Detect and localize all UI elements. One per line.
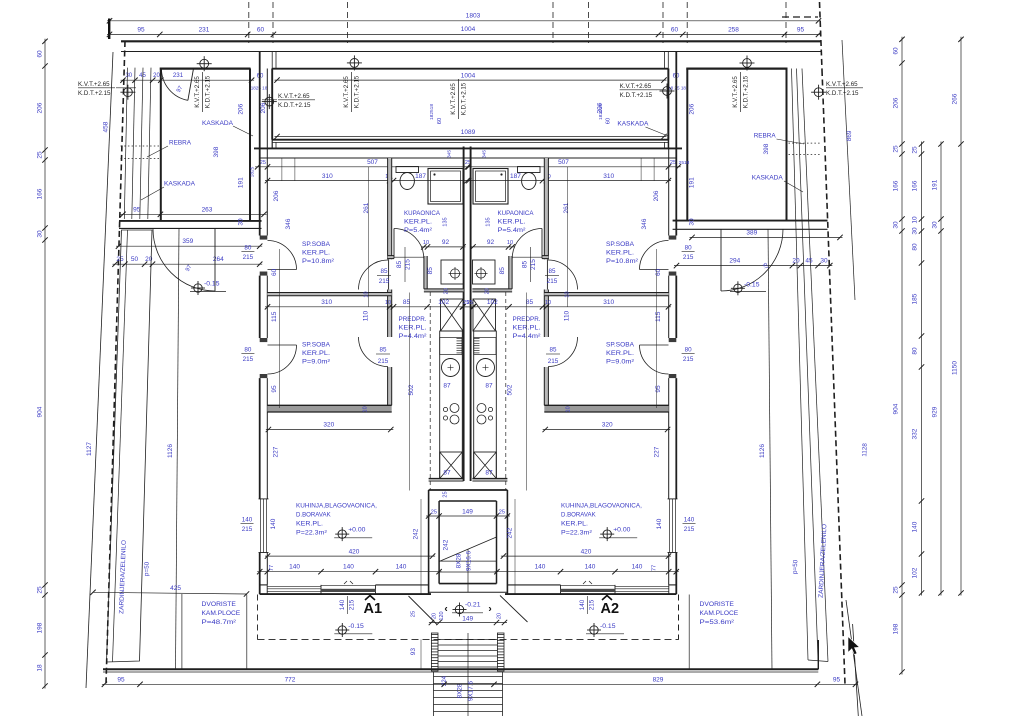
right unit bedroom1 door arc: [548, 260, 578, 290]
svg-text:25: 25: [37, 151, 44, 159]
svg-text:345: 345: [447, 150, 453, 158]
svg-text:SP.SOBA: SP.SOBA: [302, 241, 331, 248]
svg-text:95: 95: [797, 27, 805, 34]
svg-text:140: 140: [396, 564, 407, 571]
svg-text:266: 266: [952, 93, 959, 104]
left wing bottom wall: [119, 220, 262, 222]
svg-text:166: 166: [37, 188, 44, 199]
svg-text:REBRA: REBRA: [169, 140, 192, 147]
svg-text:P=10.8m²: P=10.8m²: [302, 258, 335, 265]
svg-text:20: 20: [497, 613, 503, 619]
svg-text:KASKADA: KASKADA: [202, 120, 234, 127]
svg-text:215: 215: [683, 356, 694, 363]
svg-text:332: 332: [912, 428, 919, 439]
svg-text:K.V.T.+2.65: K.V.T.+2.65: [278, 93, 310, 100]
svg-text:231: 231: [173, 72, 184, 79]
svg-text:140: 140: [242, 517, 253, 524]
left unit +0.00 marker: [338, 530, 346, 538]
svg-text:30: 30: [37, 230, 44, 238]
left unit south wall corner verticals: [266, 585, 268, 594]
svg-text:320: 320: [323, 422, 334, 429]
bottom wall step at right planter: [817, 640, 819, 669]
right unit south wall outer line: [505, 593, 676, 595]
svg-text:215: 215: [379, 278, 390, 285]
svg-text:10: 10: [912, 216, 919, 224]
svg-text:45: 45: [805, 258, 813, 265]
left unit side window 140/215: [260, 499, 262, 553]
stair shaft top wall lines: [429, 489, 508, 491]
right unit witness lines near north wall: [653, 158, 655, 181]
left unit entry door tick marks: [344, 581, 347, 584]
left yard paving line: [181, 594, 183, 669]
svg-text:507: 507: [367, 159, 378, 166]
svg-text:346: 346: [641, 218, 648, 229]
right unit bedroom divider wall: [544, 293, 668, 296]
right unit south wall inner line: [669, 584, 677, 586]
svg-text:166: 166: [912, 180, 919, 191]
svg-text:140: 140: [684, 517, 695, 524]
svg-text:310: 310: [322, 173, 333, 180]
svg-text:A2: A2: [601, 601, 620, 617]
svg-text:206: 206: [893, 97, 900, 108]
svg-text:10: 10: [507, 240, 513, 246]
left unit bedroom1 door arc: [359, 260, 389, 290]
svg-text:77: 77: [652, 565, 658, 571]
left unit side door 1 leaf+arc (80/215): [268, 241, 297, 270]
svg-text:p=50: p=50: [792, 559, 800, 574]
svg-text:242: 242: [413, 528, 420, 539]
svg-text:-0.15: -0.15: [600, 623, 616, 630]
right unit dishwasher hatch: [474, 338, 496, 355]
svg-text:215: 215: [243, 254, 254, 261]
right property boundary (dashed): [820, 2, 823, 70]
svg-text:206: 206: [688, 103, 695, 114]
svg-text:261: 261: [363, 202, 370, 213]
svg-text:P=22.3m²: P=22.3m²: [561, 530, 593, 537]
svg-text:215: 215: [242, 526, 253, 533]
right unit dim chain 310/10/85/102/25: [460, 306, 671, 308]
svg-text:502: 502: [408, 384, 415, 395]
svg-text:215: 215: [405, 259, 412, 270]
svg-text:149: 149: [462, 508, 473, 515]
svg-text:140: 140: [579, 599, 586, 610]
svg-text:198: 198: [893, 623, 900, 634]
svg-text:263: 263: [202, 206, 213, 213]
dashed axis lines above building: [248, 2, 250, 43]
left yard paving line 2: [246, 595, 248, 670]
svg-text:227: 227: [273, 446, 280, 457]
svg-text:30: 30: [238, 218, 245, 226]
svg-text:206: 206: [238, 103, 245, 114]
right yard vertical dim 1126: [768, 229, 772, 670]
svg-text:SP.SOBA: SP.SOBA: [606, 342, 635, 349]
svg-text:K.V.T.+2.65: K.V.T.+2.65: [343, 76, 350, 108]
svg-text:215: 215: [589, 599, 596, 610]
svg-text:87: 87: [443, 383, 451, 390]
svg-text:310: 310: [321, 299, 332, 306]
svg-text:227: 227: [654, 446, 661, 457]
right unit side door 2 leaf+arc (80/215): [640, 345, 669, 374]
svg-text:187: 187: [415, 173, 426, 180]
svg-text:140: 140: [656, 518, 663, 529]
right unit porch dashed outline: [678, 595, 680, 640]
svg-text:182518: 182518: [429, 104, 435, 120]
svg-text:310: 310: [603, 173, 614, 180]
svg-text:60: 60: [671, 27, 679, 34]
left unit witness lines near north wall: [281, 158, 283, 181]
right unit exterior side wall outer line: [675, 52, 677, 236]
svg-text:-0.15: -0.15: [744, 282, 760, 289]
svg-text:85: 85: [427, 267, 434, 275]
svg-text:P=10.8m²: P=10.8m²: [606, 258, 639, 265]
right unit bathroom dim 10/92: [471, 246, 515, 248]
left unit porch dashed outline: [257, 595, 259, 640]
right unit dim 420 south: [501, 555, 671, 557]
right wing bottom wall: [673, 220, 828, 222]
svg-text:929: 929: [932, 406, 939, 417]
svg-text:110: 110: [564, 310, 571, 321]
svg-text:92: 92: [487, 239, 495, 246]
svg-text:85: 85: [522, 261, 529, 269]
right boundary offset slant 869: [842, 40, 855, 300]
left unit dim 420 south: [265, 555, 435, 557]
svg-text:-0.15: -0.15: [348, 623, 364, 630]
terrace east wall: [667, 69, 669, 140]
svg-text:+0.00: +0.00: [348, 527, 365, 534]
svg-text:135: 135: [443, 217, 449, 226]
svg-text:95: 95: [117, 676, 125, 683]
left wing west wall: [160, 68, 162, 221]
left unit bathroom dim 10/92: [421, 246, 465, 248]
right unit entry door sill (hatched): [561, 589, 616, 592]
svg-text:60: 60: [37, 50, 44, 58]
svg-text:140: 140: [912, 521, 919, 532]
left unit exterior side wall outer line: [259, 52, 261, 236]
left property boundary (dashed): [106, 41, 125, 684]
svg-text:K.V.T.+2.65: K.V.T.+2.65: [732, 76, 739, 108]
right yard paving line: [688, 595, 690, 670]
stair dims 25/149/25: [426, 515, 510, 517]
terrace niche stubs: [271, 140, 273, 149]
svg-text:KUHINJA,BLAGOVAONICA,: KUHINJA,BLAGOVAONICA,: [561, 503, 642, 510]
terrace dim 1004: [275, 79, 667, 81]
right unit south window (140): [615, 585, 669, 587]
stair shaft west wall lines: [428, 490, 430, 594]
outdoor stair center line: [467, 633, 469, 716]
left unit kitchen top wall: [267, 405, 391, 412]
svg-text:D.BORAVAK: D.BORAVAK: [561, 512, 596, 519]
svg-text:25: 25: [467, 300, 473, 306]
left cascade step lines: [124, 68, 127, 219]
left wing top wall: [160, 67, 251, 69]
svg-text:80: 80: [912, 347, 919, 355]
svg-text:25: 25: [260, 160, 266, 166]
svg-text:420: 420: [349, 548, 360, 555]
svg-text:P=4.4m²: P=4.4m²: [513, 333, 542, 340]
right unit bathroom door leaf+arc 85/215: [512, 229, 542, 259]
svg-text:1127: 1127: [86, 442, 93, 456]
left yard dim 359: [116, 245, 262, 247]
left unit side door jamb hatches: [260, 236, 268, 240]
svg-text:K.V.T.+2.65: K.V.T.+2.65: [826, 81, 858, 88]
party wall lines: [463, 147, 465, 482]
svg-text:20: 20: [153, 73, 160, 79]
svg-text:102: 102: [438, 299, 449, 306]
right dimension chain B 25/166/10/30/80/185/80/332/140/102: [921, 142, 923, 596]
right unit lower shaft box with X: [474, 452, 497, 479]
left unit kitchen dim 320: [266, 429, 393, 431]
left unit porch diagonal: [409, 596, 438, 625]
right wing top wall: [686, 67, 787, 69]
svg-text:60: 60: [437, 118, 443, 124]
svg-text:191: 191: [238, 177, 245, 188]
svg-text:1004: 1004: [461, 72, 476, 79]
svg-text:10: 10: [363, 406, 369, 412]
svg-text:140: 140: [535, 564, 546, 571]
left dimension chain 60/206/25/166/30/904/25/198/18: [44, 39, 46, 689]
left unit kitchen dashed line: [429, 292, 431, 490]
svg-text:SP.SOBA: SP.SOBA: [302, 342, 331, 349]
left yard vertical dim 1126: [176, 229, 180, 670]
svg-text:1803: 1803: [466, 13, 481, 20]
north dim chain 310/10/187 left: [265, 180, 470, 182]
svg-text:149: 149: [462, 616, 473, 623]
svg-text:206: 206: [37, 102, 44, 113]
left unit south wall inner line: [260, 584, 268, 586]
right unit bedroom2 door arc: [548, 337, 578, 367]
svg-text:115: 115: [271, 311, 278, 322]
svg-text:10: 10: [565, 291, 571, 297]
right wing west wall: [686, 69, 688, 221]
right unit kitchen dim 320: [543, 429, 670, 431]
svg-text:1089: 1089: [461, 129, 476, 136]
left unit shower: [428, 169, 463, 205]
svg-text:25: 25: [411, 611, 417, 617]
svg-text:25: 25: [431, 509, 437, 515]
svg-text:346: 346: [285, 218, 292, 229]
left unit bedroom divider wall: [267, 293, 391, 296]
svg-text:+0.00: +0.00: [613, 527, 630, 534]
right unit shower: [473, 169, 508, 205]
svg-text:KER.PL.: KER.PL.: [296, 521, 323, 528]
svg-text:20: 20: [432, 613, 438, 619]
left unit lower shaft box with X: [440, 452, 463, 479]
svg-text:215: 215: [349, 599, 356, 610]
left unit -0.15 marker at entry: [338, 626, 346, 634]
svg-text:PREDPR.: PREDPR.: [399, 316, 427, 323]
right unit dim chain 77/140/140/140 south: [494, 571, 678, 573]
svg-text:869: 869: [846, 130, 853, 141]
svg-text:140: 140: [343, 564, 354, 571]
right yard -0.15 marker: [734, 284, 742, 292]
right wing crosshair + rotated K.V.T.: [743, 59, 752, 68]
outdoor stair lower treads: [434, 676, 503, 678]
left unit dim chain 77/140/140/140 south: [257, 571, 441, 573]
right unit toilet: [518, 167, 541, 173]
svg-text:502: 502: [507, 384, 514, 395]
svg-text:206: 206: [273, 190, 280, 201]
top wall band: [121, 40, 821, 42]
svg-text:1126: 1126: [167, 444, 174, 458]
svg-text:140: 140: [632, 564, 643, 571]
svg-text:187: 187: [510, 173, 521, 180]
svg-text:25: 25: [893, 586, 900, 594]
svg-text:87: 87: [443, 470, 451, 477]
svg-text:K.V.T.+2.65: K.V.T.+2.65: [620, 83, 652, 90]
svg-text:120: 120: [439, 611, 445, 620]
svg-text:KASKADA: KASKADA: [752, 175, 784, 182]
left unit south wall outer line: [260, 593, 431, 595]
left unit entry door sill (hatched): [321, 589, 376, 592]
svg-text:K.D.T.+2.15: K.D.T.+2.15: [278, 102, 311, 109]
svg-text:215: 215: [683, 254, 694, 261]
svg-text:215: 215: [547, 278, 558, 285]
svg-text:P=22.3m²: P=22.3m²: [296, 530, 328, 537]
svg-text:102: 102: [912, 567, 919, 578]
svg-text:95: 95: [833, 676, 841, 683]
svg-text:K.V.T.+2.65: K.V.T.+2.65: [78, 81, 110, 88]
right unit cooktop burners: [477, 404, 486, 413]
svg-text:REBRA: REBRA: [754, 133, 777, 140]
svg-text:85: 85: [526, 299, 534, 306]
svg-text:›: ›: [488, 604, 491, 615]
svg-text:1126: 1126: [759, 444, 766, 458]
svg-text:310: 310: [603, 299, 614, 306]
svg-text:60: 60: [893, 47, 900, 55]
right dimension chain C 191/30/929: [940, 142, 942, 596]
left wing dim chain 30/45/20/231: [121, 79, 255, 81]
left unit side door 2 leaf+arc (80/215): [268, 345, 297, 374]
svg-text:102: 102: [487, 299, 498, 306]
svg-text:P=5.4m²: P=5.4m²: [404, 227, 433, 234]
mouse cursor: [848, 637, 860, 655]
left unit kitchen counter: [440, 331, 463, 479]
stair shaft south lines: [439, 583, 496, 585]
svg-text:P=48.7m²: P=48.7m²: [202, 619, 237, 626]
svg-text:60: 60: [271, 268, 278, 276]
svg-text:425: 425: [170, 585, 181, 592]
svg-text:398: 398: [763, 143, 770, 154]
svg-text:KAM.PLOCE: KAM.PLOCE: [202, 610, 241, 617]
svg-text:20: 20: [444, 288, 450, 294]
svg-text:77: 77: [269, 565, 275, 571]
svg-text:1128: 1128: [861, 443, 868, 457]
svg-text:60: 60: [257, 27, 265, 34]
svg-text:80: 80: [685, 245, 693, 252]
left unit counter bottom wall: [429, 478, 464, 480]
left unit kitchen sink: [442, 359, 460, 377]
svg-text:85: 85: [499, 267, 506, 275]
left wing top-wall door leaf and arc: [188, 69, 194, 101]
left unit bathroom south wall stub: [388, 256, 394, 259]
svg-text:507: 507: [558, 159, 569, 166]
stair center line: [467, 549, 469, 592]
svg-text:80: 80: [244, 347, 252, 354]
svg-text:206: 206: [597, 102, 604, 113]
svg-text:K.D.T.+2.15: K.D.T.+2.15: [743, 75, 750, 108]
svg-text:1004: 1004: [461, 26, 476, 33]
left yard slanted dim 425: [93, 592, 247, 594]
svg-text:904: 904: [893, 403, 900, 414]
svg-text:242: 242: [443, 539, 450, 550]
left yard -0.15 marker: [194, 284, 202, 292]
svg-text:398: 398: [213, 146, 220, 157]
right unit kitchen dashed line: [505, 292, 507, 490]
svg-text:85: 85: [380, 268, 388, 275]
left unit bathroom door leaf+arc 85/215: [394, 229, 424, 259]
svg-text:KER.PL.: KER.PL.: [498, 219, 526, 226]
porch dashed line: [258, 639, 679, 641]
svg-text:261: 261: [563, 202, 570, 213]
right unit side door jamb hatches: [669, 236, 677, 240]
left outer slant line with 458/1127: [86, 52, 113, 688]
right unit kitchen sink: [477, 359, 495, 377]
terrace dim 1089: [275, 136, 667, 138]
svg-text:829: 829: [653, 676, 664, 683]
right wing east wall: [786, 69, 788, 221]
svg-text:294: 294: [729, 258, 740, 265]
left wing crosshair + rotated K.V.T.: [200, 59, 209, 68]
svg-text:359: 359: [182, 238, 193, 245]
outdoor stair hatched cheeks: [431, 633, 438, 671]
terrace corner connectors: [271, 52, 273, 69]
svg-text:1150: 1150: [952, 361, 959, 375]
svg-text:93: 93: [410, 648, 417, 656]
stair shaft east wall lines: [506, 490, 508, 594]
svg-text:P=4.4m²: P=4.4m²: [399, 333, 428, 340]
svg-text:320: 320: [602, 422, 613, 429]
left unit shaft box with X: [441, 299, 464, 331]
svg-text:80: 80: [244, 245, 252, 252]
svg-text:30: 30: [125, 73, 132, 79]
left unit wall W1 bedroom/bath: [388, 158, 392, 259]
svg-text:166: 166: [893, 180, 900, 191]
right unit side window 140/215: [675, 499, 677, 553]
svg-text:KER.PL.: KER.PL.: [404, 219, 432, 226]
svg-text:18 25 18: 18 25 18: [668, 86, 686, 91]
bottom yard wall: [103, 668, 818, 670]
svg-text:KASKADA: KASKADA: [164, 181, 196, 188]
right planter bottom: [808, 660, 828, 662]
svg-text:K.D.T.+2.15: K.D.T.+2.15: [461, 82, 468, 115]
terrace west wall: [271, 69, 273, 140]
svg-text:K.D.T.+2.15: K.D.T.+2.15: [78, 90, 111, 97]
svg-text:135: 135: [486, 217, 492, 226]
svg-text:K.D.T.+2.15: K.D.T.+2.15: [205, 75, 212, 108]
svg-text:P=9.0m²: P=9.0m²: [302, 359, 331, 366]
stair treads interior: [439, 560, 496, 562]
svg-text:85: 85: [548, 268, 556, 275]
left unit washbasin: [441, 260, 464, 284]
dim line 95/231/60/1004/60/258/95: [107, 33, 821, 35]
svg-text:2518: 2518: [679, 160, 690, 166]
svg-text:191: 191: [932, 179, 939, 190]
right yard gate door arc: [721, 229, 783, 291]
svg-text:389: 389: [746, 229, 757, 236]
svg-text:140: 140: [585, 564, 596, 571]
left unit exterior side wall inner line: [266, 69, 268, 236]
svg-text:KAM.PLOCE: KAM.PLOCE: [700, 610, 739, 617]
svg-text:87: 87: [485, 383, 493, 390]
svg-text:85: 85: [379, 347, 387, 354]
svg-text:215: 215: [684, 526, 695, 533]
svg-text:1825: 1825: [250, 166, 256, 177]
north dim chain 507/25 right: [466, 166, 681, 168]
svg-text:A1: A1: [364, 601, 383, 617]
svg-text:KER.PL.: KER.PL.: [561, 521, 588, 528]
svg-text:10: 10: [423, 240, 429, 246]
svg-text:25: 25: [670, 160, 676, 166]
